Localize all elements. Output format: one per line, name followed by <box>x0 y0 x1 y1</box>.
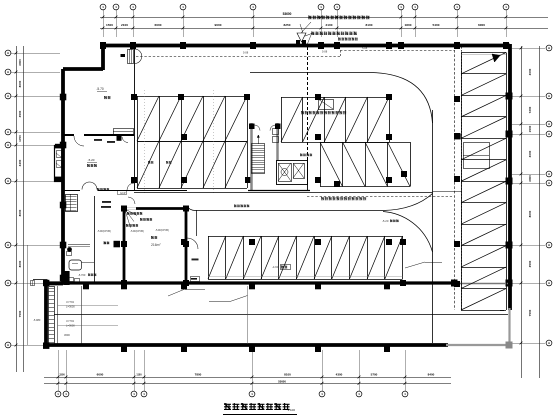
svg-text:-5.90(CH45): -5.90(CH45) <box>155 229 169 232</box>
svg-text:8100: 8100 <box>284 372 291 376</box>
svg-text:7200: 7200 <box>528 106 532 113</box>
svg-text:-5.90(CH45): -5.90(CH45) <box>97 230 111 233</box>
svg-text:1100: 1100 <box>136 373 142 376</box>
svg-text:1:100: 1:100 <box>288 408 296 412</box>
svg-text:2100: 2100 <box>121 23 128 27</box>
svg-text:53600: 53600 <box>278 379 286 383</box>
svg-text:5-08: 5-08 <box>243 51 249 55</box>
svg-text:-5.20: -5.20 <box>88 158 95 162</box>
svg-text:4400: 4400 <box>18 159 22 166</box>
svg-text:-5.20: -5.20 <box>382 219 389 223</box>
svg-text:3000: 3000 <box>528 175 532 182</box>
svg-text:6000: 6000 <box>478 23 485 27</box>
svg-text:8100: 8100 <box>366 23 373 27</box>
svg-text:8000: 8000 <box>528 210 532 217</box>
svg-text:3600: 3600 <box>64 333 70 337</box>
svg-text:5400: 5400 <box>433 23 440 27</box>
svg-text:L=3600: L=3600 <box>66 324 75 328</box>
svg-text:8000: 8000 <box>18 209 22 216</box>
svg-text:i=7.5%: i=7.5% <box>66 319 75 323</box>
svg-text:53600: 53600 <box>283 12 292 16</box>
svg-text:-5.70: -5.70 <box>96 87 103 91</box>
svg-text:8000: 8000 <box>18 80 22 87</box>
svg-text:6000: 6000 <box>155 23 162 27</box>
svg-text:-4.60: -4.60 <box>272 265 279 269</box>
svg-text:7500: 7500 <box>528 309 532 316</box>
svg-text:1500: 1500 <box>106 23 113 27</box>
svg-text:5-08: 5-08 <box>362 46 368 50</box>
svg-text:1700: 1700 <box>18 135 22 142</box>
svg-text:-5.700: -5.700 <box>78 273 86 277</box>
svg-text:6000: 6000 <box>97 372 104 376</box>
svg-text:5700: 5700 <box>371 372 378 376</box>
svg-text:3500: 3500 <box>528 260 532 267</box>
svg-text:4500: 4500 <box>18 110 22 117</box>
svg-text:-5.980: -5.980 <box>33 318 41 322</box>
svg-text:i=7.5%: i=7.5% <box>66 300 75 304</box>
svg-text:1500: 1500 <box>59 373 65 376</box>
svg-text:-5.90(CH45): -5.90(CH45) <box>130 230 144 233</box>
svg-text:3000: 3000 <box>18 59 22 66</box>
svg-text:7800: 7800 <box>195 372 202 376</box>
svg-text:8000: 8000 <box>18 260 22 267</box>
svg-text:4000: 4000 <box>528 150 532 157</box>
svg-text:1500: 1500 <box>528 125 532 132</box>
svg-text:2100: 2100 <box>326 23 333 27</box>
svg-text:216m: 216m <box>151 243 160 247</box>
svg-text:7500: 7500 <box>18 310 22 317</box>
svg-text:3000: 3000 <box>528 68 532 75</box>
svg-text:5-08: 5-08 <box>322 50 328 54</box>
svg-text:1800: 1800 <box>405 23 412 27</box>
svg-text:L=3600: L=3600 <box>66 305 75 309</box>
svg-text:4300: 4300 <box>336 372 343 376</box>
svg-text:8250: 8250 <box>284 23 291 27</box>
svg-text:8400: 8400 <box>428 372 435 376</box>
svg-text:9000: 9000 <box>215 23 222 27</box>
